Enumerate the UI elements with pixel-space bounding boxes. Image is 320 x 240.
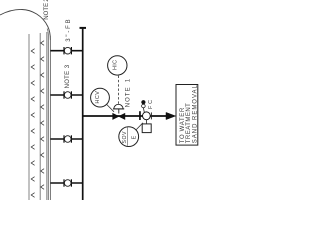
internal lateral pipe line A: [28, 34, 30, 200]
flow orifice symbol branch 4: [64, 179, 71, 186]
nozzle chevrons column 1: [31, 49, 34, 198]
vent filled circle: [141, 100, 145, 104]
branch pipe 1: [50, 50, 82, 52]
solenoid valve body: [139, 111, 141, 120]
internal header pipe line C: [46, 32, 48, 200]
actuator base bar: [113, 108, 124, 110]
instrument bubble HIC: [108, 56, 127, 75]
svg-text:HCV: HCV: [95, 91, 101, 104]
solenoid valve ball: [143, 112, 151, 120]
control valve HCV body: [113, 113, 125, 119]
flow arrowhead: [166, 112, 176, 119]
pipe end cap: [80, 27, 87, 29]
filter vessel right wall: [49, 36, 51, 200]
svg-text:SAND REMOVAL: SAND REMOVAL: [192, 85, 198, 144]
diaphragm actuator dome: [114, 104, 123, 108]
backwash header vertical pipe: [82, 28, 84, 200]
svg-text:2: 2: [44, 0, 50, 2]
flow orifice symbol branch 3: [64, 135, 71, 142]
svg-text:TO WATER: TO WATER: [180, 107, 186, 143]
internal downcomer line D: [47, 29, 48, 201]
svg-text:NOTE: NOTE: [65, 71, 71, 89]
svg-text:HIC: HIC: [113, 60, 119, 70]
solenoid actuator box: [142, 124, 151, 133]
flow orifice symbol branch 2: [64, 91, 71, 98]
valve stem: [118, 109, 120, 114]
svg-text:FC: FC: [148, 100, 154, 109]
right seat bar: [150, 112, 152, 119]
branch pipe 3: [50, 138, 82, 140]
vent open circle: [142, 104, 146, 108]
branch pipe 4: [50, 182, 82, 184]
destination box: [176, 85, 198, 146]
upper stem: [142, 108, 145, 113]
solenoid tag bubble SOV E: [119, 127, 139, 147]
instrument signal dashed line: [118, 76, 120, 104]
internal header pipe line B: [39, 33, 41, 200]
svg-text:SOV: SOV: [122, 131, 128, 144]
nozzle chevrons column 2: [41, 41, 44, 190]
svg-text:NOTE: NOTE: [125, 87, 131, 107]
svg-text:E: E: [131, 135, 137, 139]
filter vessel dome arc: [0, 9, 50, 40]
flow orifice symbol branch 1: [64, 47, 71, 54]
bubble divider chord: [127, 127, 129, 146]
lower stem: [145, 120, 147, 124]
svg-text:TREATMENT: TREATMENT: [186, 103, 192, 143]
svg-text:NOTE: NOTE: [44, 3, 50, 20]
tag leader line: [107, 104, 114, 111]
branch pipe 2: [50, 94, 82, 96]
valve tag bubble HCV: [91, 88, 110, 107]
outlet pipe to water treatment: [83, 115, 167, 117]
tag leader line: [136, 123, 143, 130]
